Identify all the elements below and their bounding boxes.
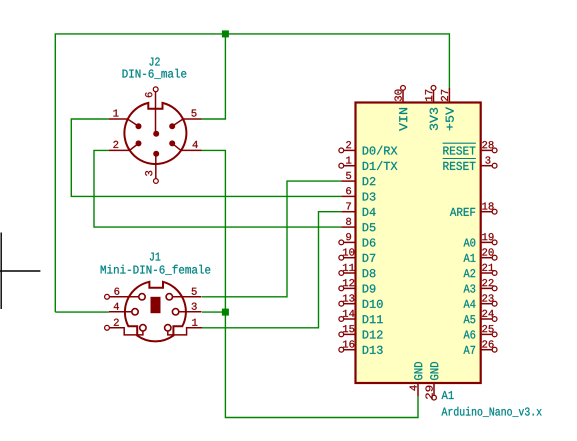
connector J2 DIN-6_male xyxy=(109,57,202,183)
wire J2 pin2 to Arduino D5 xyxy=(94,150,341,227)
J2 pin number 5 xyxy=(191,110,196,117)
J2 pin number 2 xyxy=(113,141,118,148)
wire J1 pin5 to Arduino D2 xyxy=(202,181,341,297)
A1 reference xyxy=(442,391,454,399)
wire GND net from J2 pin 4 to Arduino GND pin 4 xyxy=(202,150,419,417)
J1 pin 6 (unconnected) xyxy=(110,296,139,298)
J1 value Mini-DIN-6_female xyxy=(101,265,211,275)
wire J1 pin1 to Arduino D4 xyxy=(202,212,341,328)
A1 pin 18 AREF (right) xyxy=(481,211,493,213)
J2 pin 5 xyxy=(172,119,201,126)
A1 pin 7 D4 (left) xyxy=(341,211,355,213)
J1 body outline with notches xyxy=(125,282,186,342)
J2 bottom contact dot xyxy=(153,151,159,157)
J1 pin5 hole xyxy=(166,294,172,300)
wire GND from J1 pin 3 xyxy=(202,311,225,313)
J1 pin6 hole xyxy=(139,294,145,300)
J2 upper-right contact dot xyxy=(169,123,175,129)
J2 pin number 4 xyxy=(193,141,198,148)
A1 body xyxy=(356,103,481,384)
J1 pin2 hole xyxy=(140,325,146,331)
A1 pin 14 D11 (left) xyxy=(344,318,356,320)
J1 pin1 hole xyxy=(165,325,171,331)
J1 pin 1 (stepped) xyxy=(168,328,202,335)
A1 pin 23 A4 (right) xyxy=(481,303,493,305)
A1 pin 11 D8 (left) xyxy=(344,272,356,274)
A1 pin 21 A2 (right) xyxy=(481,272,493,274)
A1 pin 6 D3 (left) xyxy=(341,195,355,197)
J1 reference xyxy=(150,253,160,261)
A1 pin 22 A3 (right) xyxy=(481,287,493,289)
J2 pin 3 (bottom, unconnected) xyxy=(155,154,157,179)
J1 pin number 2 xyxy=(114,319,119,326)
partial off-sheet symbol (black) at left margin xyxy=(0,233,40,310)
J1 pin 3 xyxy=(179,311,202,313)
A1 pin 16 D13 (left) xyxy=(344,349,356,351)
A1 pin 10 D7 (left) xyxy=(344,257,356,259)
J2 pin 2 xyxy=(109,143,139,150)
J2 pin number 3 (rotated) xyxy=(145,171,152,176)
A1 pin 3 RESET (right) xyxy=(481,165,493,167)
J2 reference xyxy=(149,57,159,65)
A1 pin 25 A6 (right) xyxy=(481,333,493,335)
wire J2 pin1 to Arduino D3 xyxy=(71,119,341,196)
J1 pin number 6 xyxy=(114,288,119,295)
J2 value DIN-6_male xyxy=(123,69,187,79)
A1 pin 27 +5V (top) xyxy=(448,88,450,103)
A1 pin 5 D2 (left) xyxy=(341,180,355,182)
A1 pin 20 A1 (right) xyxy=(481,257,493,259)
J1 pin 5 xyxy=(173,296,202,298)
J2 pin 6 (top, unconnected) xyxy=(155,92,157,133)
A1 pin 19 A0 (right) xyxy=(481,241,493,243)
J1 pin number 1 xyxy=(192,319,197,326)
A1 pin 4 GND (bottom) xyxy=(417,383,419,397)
junction on +5V bus xyxy=(222,30,229,37)
J2 center contact dot xyxy=(153,131,159,137)
A1 pin 2 D0/RX (left) xyxy=(344,149,356,151)
J2 body circle with keying notch xyxy=(124,103,186,164)
junction GND riser / J1 pin 3 xyxy=(222,309,229,316)
A1 pin 13 D10 (left) xyxy=(344,303,356,305)
J2 lower-right contact dot xyxy=(169,140,175,146)
J1 pin3 hole xyxy=(172,309,178,315)
connector J1 Mini-DIN-6_female xyxy=(101,253,211,342)
wire +5V drop to J2 pin 5 xyxy=(202,34,226,119)
MCU A1 Arduino_Nano_v3.x xyxy=(339,86,542,417)
J1 pin number 5 xyxy=(192,288,197,295)
A1 pin 17 3V3 (top) xyxy=(433,90,435,102)
A1 pin 15 D12 (left) xyxy=(344,333,356,335)
J1 key rectangle xyxy=(151,297,161,313)
J1 pin4 hole xyxy=(132,309,138,315)
J1 pin number 3 xyxy=(192,303,197,310)
A1 value Arduino_Nano_v3.x xyxy=(442,407,542,417)
J2 pin 4 xyxy=(172,143,201,150)
wire +5V to J1 pin 4 xyxy=(55,311,109,313)
J2 pin number 6 (rotated) xyxy=(145,92,152,97)
J2 pin 1 xyxy=(109,119,139,126)
J2 upper-left contact dot xyxy=(136,123,142,129)
J2 pin number 1 xyxy=(113,110,118,117)
J1 pin 4 xyxy=(109,311,132,313)
J1 pin 2 (unconnected, stepped) xyxy=(110,328,143,335)
A1 pin 28 RESET (right) xyxy=(481,149,493,151)
A1 pin 8 D5 (left) xyxy=(341,226,355,228)
A1 pin 26 A7 (right) xyxy=(481,349,493,351)
A1 pin 24 A5 (right) xyxy=(481,318,493,320)
wire +5V net top bus xyxy=(55,34,449,312)
A1 pin 12 D9 (left) xyxy=(344,287,356,289)
A1 pin 29 GND (bottom) xyxy=(433,383,435,395)
J1 pin number 4 xyxy=(114,303,119,310)
A1 pin 1 D1/TX (left) xyxy=(344,165,356,167)
J2 lower-left contact dot xyxy=(136,140,142,146)
A1 pin 9 D6 (left) xyxy=(344,241,356,243)
A1 pin 30 VIN (top) xyxy=(402,90,404,102)
